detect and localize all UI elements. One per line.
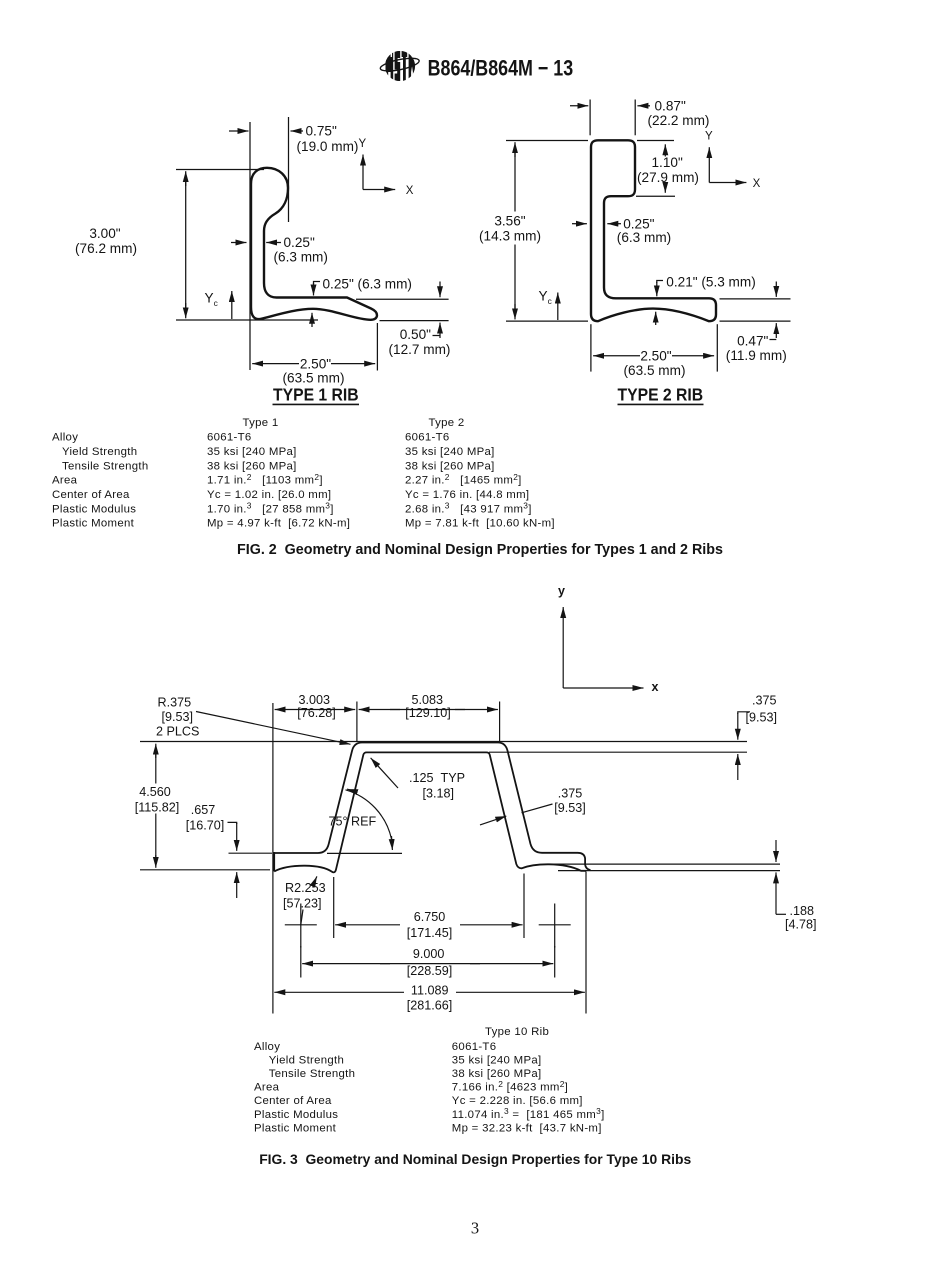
Type 1 Yc centroid label [205, 291, 232, 320]
Type 1 0.75in arrow [291, 130, 304, 132]
Type 2 left extension line [589, 100, 591, 136]
svg-text:Yc = 1.02 in. [26.0 mm]: Yc = 1.02 in. [26.0 mm] [207, 489, 331, 501]
svg-text:.375: .375 [558, 786, 583, 800]
svg-text:1.71 in.2 [1103 mm2]: 1.71 in.2 [1103 mm2] [207, 472, 323, 487]
svg-text:3: 3 [471, 1219, 479, 1238]
R2.253 label and leader [283, 876, 326, 924]
Type 1 coordinate axes [359, 138, 414, 197]
svg-text:X: X [753, 178, 761, 190]
svg-text:(11.9 mm): (11.9 mm) [726, 348, 787, 363]
Type 2 right lower extension line [720, 320, 791, 322]
svg-text:[115.82]: [115.82] [135, 800, 180, 814]
svg-text:75° REF: 75° REF [329, 814, 377, 828]
Type 10 rib profile outer outline [274, 743, 591, 871]
svg-text:B864/B864M − 13: B864/B864M − 13 [428, 57, 574, 81]
R.375 2 PLCS label and leader [156, 696, 351, 745]
svg-text:(76.2 mm): (76.2 mm) [75, 241, 137, 256]
svg-text:[57.23]: [57.23] [283, 897, 322, 911]
svg-text:(63.5 mm): (63.5 mm) [283, 371, 345, 386]
svg-text:6061-T6: 6061-T6 [207, 432, 252, 444]
svg-text:6061-T6: 6061-T6 [452, 1041, 497, 1053]
Type 1 right lower extension line [380, 320, 449, 322]
svg-text:[3.18]: [3.18] [423, 786, 455, 800]
svg-text:TYPE 1 RIB: TYPE 1 RIB [273, 385, 359, 405]
Type 1 rib profile outline [251, 168, 377, 320]
svg-text:Plastic Moment: Plastic Moment [52, 518, 135, 530]
svg-text:Yield Strength: Yield Strength [62, 446, 137, 458]
svg-text:Plastic Modulus: Plastic Modulus [254, 1109, 338, 1121]
Type 2 3.56in dimension [479, 141, 588, 322]
svg-text:3.00": 3.00" [89, 226, 120, 241]
svg-text:35 ksi [240 MPa]: 35 ksi [240 MPa] [405, 446, 495, 458]
svg-text:Yc = 2.228 in. [56.6 mm]: Yc = 2.228 in. [56.6 mm] [452, 1095, 583, 1107]
flange-top left extension line [229, 852, 273, 854]
svg-text:35 ksi [240 MPa]: 35 ksi [240 MPa] [452, 1054, 542, 1066]
svg-text:2.27 in.2 [1465 mm2]: 2.27 in.2 [1465 mm2] [405, 472, 522, 487]
svg-text:11.089: 11.089 [411, 984, 449, 998]
svg-text:.125 TYP: .125 TYP [409, 771, 465, 785]
left tall extension line [272, 703, 274, 1014]
ASTM logo [379, 51, 420, 81]
svg-text:y: y [558, 584, 565, 598]
svg-text:0.25": 0.25" [623, 216, 654, 231]
75 degree REF angle [327, 789, 402, 853]
svg-text:0.21" (5.3 mm): 0.21" (5.3 mm) [666, 274, 755, 289]
svg-text:FIG. 2 Geometry and Nominal D: FIG. 2 Geometry and Nominal Design Prope… [237, 542, 723, 558]
3.003 dimension [275, 693, 356, 720]
svg-text:[228.59]: [228.59] [407, 964, 453, 978]
svg-text:[171.45]: [171.45] [407, 926, 453, 940]
svg-text:Alloy: Alloy [52, 432, 78, 444]
svg-text:R.375: R.375 [158, 696, 192, 710]
TYPE 1 RIB title [273, 385, 360, 405]
svg-text:Y: Y [705, 130, 713, 142]
svg-text:X: X [406, 185, 414, 197]
Type 2 1.10in dimension [636, 141, 699, 197]
11.089 dimension [274, 984, 585, 1013]
svg-text:6061-T6: 6061-T6 [405, 432, 450, 444]
Type 10 rib profile inner outline and bottom fillet arcs [274, 752, 586, 872]
svg-text:[281.66]: [281.66] [407, 999, 453, 1013]
Type 1 0.75in extension line [288, 117, 290, 222]
svg-text:[76.28]: [76.28] [297, 706, 336, 720]
svg-text:[9.53]: [9.53] [162, 710, 194, 724]
svg-text:2.68 in.3 [43 917 mm3]: 2.68 in.3 [43 917 mm3] [405, 501, 532, 516]
svg-text:(19.0 mm): (19.0 mm) [297, 139, 359, 154]
FIG 3 caption [259, 1151, 691, 1167]
svg-text:1.70 in.3 [27 858 mm3]: 1.70 in.3 [27 858 mm3] [207, 501, 334, 516]
letter M [409, 51, 416, 81]
svg-text:(6.3 mm): (6.3 mm) [274, 250, 328, 265]
svg-text:Tensile Strength: Tensile Strength [62, 460, 148, 472]
.125 TYP label and leader [371, 758, 465, 801]
svg-text:x: x [652, 680, 659, 694]
svg-text:FIG. 3 Geometry and Nominal D: FIG. 3 Geometry and Nominal Design Prope… [259, 1151, 691, 1167]
svg-text:Center of Area: Center of Area [52, 489, 130, 501]
5.083 dimension [359, 693, 498, 720]
deck plate bottom line [558, 870, 780, 872]
svg-text:Yc = 1.76 in. [44.8 mm]: Yc = 1.76 in. [44.8 mm] [405, 489, 529, 501]
Type 2 0.87in extension line [634, 100, 636, 136]
svg-text:9.000: 9.000 [413, 947, 445, 961]
Type 2 rib profile outline [591, 140, 716, 321]
svg-text:7.166 in.2 [4623 mm2]: 7.166 in.2 [4623 mm2] [452, 1079, 568, 1094]
svg-text:R2.253: R2.253 [285, 881, 326, 895]
letter A [386, 51, 394, 81]
Type 2 0.21in flange dimension [656, 274, 756, 325]
Type 2 Yc centroid label [539, 289, 558, 321]
svg-text:Type 1: Type 1 [243, 417, 279, 429]
bottom-left baseline extension line [140, 869, 270, 871]
page number [471, 1219, 479, 1238]
svg-text:Plastic Modulus: Plastic Modulus [52, 503, 136, 515]
svg-text:2 PLCS: 2 PLCS [156, 724, 199, 738]
svg-text:Mp = 32.23 k-ft [43.7 kN-m]: Mp = 32.23 k-ft [43.7 kN-m] [452, 1122, 602, 1134]
Type 10 rib coordinate axes [558, 584, 659, 694]
Type 2 right upper extension line [720, 298, 791, 300]
svg-text:Type 2: Type 2 [429, 417, 465, 429]
svg-text:0.25" (6.3 mm): 0.25" (6.3 mm) [323, 276, 412, 291]
svg-text:6.750: 6.750 [414, 910, 446, 924]
svg-text:(6.3 mm): (6.3 mm) [617, 230, 671, 245]
svg-text:11.074 in.3 = [181 465 mm3]: 11.074 in.3 = [181 465 mm3] [452, 1106, 605, 1121]
svg-text:38 ksi [260 MPa]: 38 ksi [260 MPa] [207, 460, 297, 472]
Type 2 coordinate axes [705, 130, 761, 190]
right tall extension line [585, 872, 587, 1014]
right center mark cross [539, 904, 571, 948]
svg-text:2.50": 2.50" [640, 349, 671, 364]
svg-text:[9.53]: [9.53] [554, 801, 586, 815]
Type 1 top-left inward arrow [229, 130, 249, 132]
extension line at top-right corner [499, 702, 501, 742]
svg-text:1.10": 1.10" [652, 155, 683, 170]
svg-text:Tensile Strength: Tensile Strength [269, 1068, 355, 1080]
svg-text:3.003: 3.003 [299, 693, 331, 707]
svg-text:(27.9 mm): (27.9 mm) [637, 170, 699, 185]
svg-text:(63.5 mm): (63.5 mm) [624, 363, 686, 378]
.375 top plate thickness dimension [738, 694, 777, 780]
svg-text:35 ksi [240 MPa]: 35 ksi [240 MPa] [207, 446, 297, 458]
.657 dimension [186, 803, 237, 898]
svg-text:Mp = 7.81 k-ft [10.60 kN-m]: Mp = 7.81 k-ft [10.60 kN-m] [405, 518, 555, 530]
svg-text:Area: Area [52, 475, 78, 487]
svg-text:0.75": 0.75" [306, 124, 337, 139]
TYPE 2 RIB title [617, 385, 703, 405]
Type 2 0.87in label [648, 98, 710, 128]
svg-text:Mp = 4.97 k-ft [6.72 kN-m]: Mp = 4.97 k-ft [6.72 kN-m] [207, 518, 350, 530]
6.750 dimension [334, 874, 524, 941]
.188 deck plate thickness dimension [776, 840, 817, 932]
Type 1 0.50in dimension arrows [389, 282, 451, 358]
svg-text:5.083: 5.083 [412, 693, 444, 707]
svg-text:[16.70]: [16.70] [186, 818, 225, 832]
svg-text:(12.7 mm): (12.7 mm) [389, 342, 451, 357]
Type 1 2.50in dimension [252, 323, 377, 386]
svg-text:0.47": 0.47" [737, 334, 768, 349]
Type 2 top-left inward arrow [570, 105, 588, 107]
svg-text:Plastic Moment: Plastic Moment [254, 1122, 337, 1134]
inner top surface reference line [489, 751, 747, 753]
extension line at top-left corner [356, 702, 358, 742]
svg-text:TYPE 2 RIB: TYPE 2 RIB [617, 385, 703, 405]
left center mark cross [285, 904, 317, 948]
9.000 dimension [301, 946, 555, 978]
svg-text:Alloy: Alloy [254, 1041, 280, 1053]
.375 wall thickness label [480, 786, 586, 825]
Type 1 right upper extension line [356, 298, 449, 300]
4.560 dimension [135, 744, 180, 868]
svg-text:Yc: Yc [205, 291, 218, 309]
svg-text:2.50": 2.50" [300, 356, 331, 371]
svg-text:.375: .375 [752, 694, 777, 708]
svg-text:Yc: Yc [539, 289, 552, 307]
Type 1 3.00in dimension [75, 170, 318, 321]
svg-text:0.50": 0.50" [400, 327, 431, 342]
Type 1 0.25in flange dimension [312, 276, 412, 327]
svg-text:38 ksi [260 MPa]: 38 ksi [260 MPa] [405, 460, 495, 472]
header designation text B864/B864M - 13 [428, 57, 574, 81]
svg-text:Area: Area [254, 1082, 280, 1094]
letter T [402, 51, 408, 81]
svg-text:Center of Area: Center of Area [254, 1095, 332, 1107]
svg-text:[129.10]: [129.10] [405, 706, 451, 720]
Type 2 0.87in arrow [637, 105, 650, 107]
svg-text:(14.3 mm): (14.3 mm) [479, 228, 541, 243]
svg-text:0.25": 0.25" [284, 235, 315, 250]
svg-text:.657: .657 [191, 803, 216, 817]
FIG 2 caption [237, 542, 723, 558]
svg-text:.188: .188 [790, 904, 815, 918]
Type 1 left extension line [249, 122, 251, 370]
svg-text:[4.78]: [4.78] [785, 918, 817, 932]
letter S [395, 51, 401, 81]
svg-text:38 ksi [260 MPa]: 38 ksi [260 MPa] [452, 1068, 542, 1080]
svg-text:Y: Y [359, 138, 367, 150]
svg-text:[9.53]: [9.53] [746, 711, 778, 725]
Type 1 0.25in web dimension [231, 235, 328, 265]
svg-text:4.560: 4.560 [139, 785, 171, 799]
Type 2 0.25in web dimension [572, 216, 671, 245]
Type 1 0.75in label [297, 124, 359, 154]
svg-text:Yield Strength: Yield Strength [269, 1054, 344, 1066]
top surface reference line [140, 741, 747, 743]
Type 2 0.47in dimension arrows [726, 282, 787, 364]
deck plate top line [544, 863, 780, 865]
svg-text:0.87": 0.87" [655, 98, 686, 113]
svg-text:Type 10 Rib: Type 10 Rib [485, 1026, 549, 1038]
Type 2 2.50in dimension [591, 324, 717, 378]
svg-text:(22.2 mm): (22.2 mm) [648, 113, 710, 128]
svg-text:3.56": 3.56" [494, 214, 525, 229]
